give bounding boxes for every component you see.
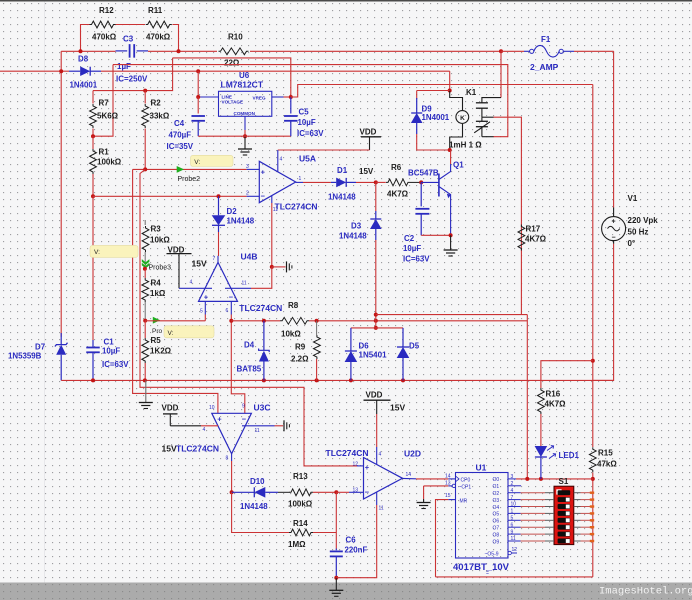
svg-text:2.2Ω: 2.2Ω bbox=[291, 355, 309, 364]
svg-text:VDD: VDD bbox=[168, 245, 185, 254]
fuse F1 2_AMP bbox=[501, 50, 524, 52]
bottom gray scrollbar band bbox=[0, 583, 692, 600]
resistor R14 1M bbox=[289, 529, 313, 536]
node R16 branch bbox=[591, 359, 595, 363]
svg-text:470µF: 470µF bbox=[169, 131, 192, 140]
svg-text:5K6Ω: 5K6Ω bbox=[97, 112, 119, 121]
diode D9 1N4001 bbox=[417, 90, 450, 92]
svg-text:C2: C2 bbox=[404, 234, 415, 243]
svg-text:4K7Ω: 4K7Ω bbox=[545, 400, 567, 409]
svg-text:LED1: LED1 bbox=[559, 451, 580, 460]
svg-text:+: + bbox=[204, 292, 209, 301]
pin U4B - input stub bbox=[230, 301, 232, 314]
wire R13 node to U2D- bbox=[336, 491, 349, 493]
node R11 drop bbox=[177, 49, 181, 53]
svg-text:TLC274CN: TLC274CN bbox=[239, 303, 282, 313]
svg-text:15V: 15V bbox=[390, 403, 405, 413]
node x61 on D8 line bbox=[59, 69, 63, 73]
svg-text:1N4148: 1N4148 bbox=[240, 502, 268, 511]
node LINE/C4 bbox=[196, 95, 200, 99]
wire MR bottom run bbox=[436, 576, 593, 578]
node LED bbox=[539, 477, 543, 481]
svg-text:9: 9 bbox=[242, 404, 245, 410]
diode D6 1N5401 bbox=[350, 328, 352, 351]
svg-text:V:: V: bbox=[168, 330, 174, 337]
svg-text:−: − bbox=[229, 292, 234, 301]
wire U4B feedback to R14 bbox=[232, 492, 290, 532]
relay NC contact bbox=[481, 117, 483, 121]
wire fuse to V1 bbox=[613, 51, 615, 207]
svg-text:D8: D8 bbox=[78, 55, 89, 64]
node U6 LINE branch bbox=[196, 69, 200, 73]
wire pin11 node to U4B side bbox=[251, 267, 272, 288]
wire C4 riser bbox=[197, 97, 199, 114]
resistor R1 100k bbox=[92, 136, 94, 149]
node R7 bottom / R1 top bbox=[91, 134, 95, 138]
svg-text:R13: R13 bbox=[293, 472, 308, 481]
svg-text:IC=250V: IC=250V bbox=[116, 74, 148, 83]
wire U3C out to D10 node bbox=[231, 461, 233, 492]
svg-text:VDD: VDD bbox=[162, 404, 179, 413]
svg-text:V:: V: bbox=[194, 159, 200, 166]
svg-text:+: + bbox=[612, 219, 616, 226]
svg-text:14: 14 bbox=[445, 474, 451, 480]
svg-text:2: 2 bbox=[511, 481, 514, 487]
svg-text:1: 1 bbox=[511, 509, 514, 515]
node D4 top bbox=[262, 319, 266, 323]
relay contact common to R17 bbox=[482, 116, 494, 118]
resistor R4 1k bbox=[144, 269, 146, 278]
wire main ground rail bbox=[61, 379, 613, 381]
svg-text:V1: V1 bbox=[628, 194, 638, 203]
transistor Q1 BC547B bbox=[438, 174, 440, 197]
svg-text:D10: D10 bbox=[250, 477, 265, 486]
svg-text:R15: R15 bbox=[598, 449, 613, 458]
svg-text:K1: K1 bbox=[466, 88, 477, 97]
svg-text:1N5359B: 1N5359B bbox=[8, 352, 42, 361]
svg-text:=: = bbox=[486, 571, 489, 577]
ground ~CP1 bbox=[417, 502, 431, 504]
ground rail symbol bbox=[145, 380, 147, 402]
node U3C out / D10 / R14 bbox=[230, 490, 234, 494]
wire U5A pin4 to VDD bbox=[278, 149, 370, 151]
resistor R6 4K7 bbox=[376, 181, 386, 183]
op-amp U5A TLC274CN bbox=[259, 161, 295, 202]
diode D4 BAT85 bbox=[263, 321, 265, 350]
svg-text:15V: 15V bbox=[192, 258, 207, 268]
pin U6 COMMON bbox=[244, 116, 246, 130]
svg-text:C6: C6 bbox=[346, 536, 357, 545]
wire probe node to U3C+ bbox=[133, 269, 218, 414]
svg-text:R2: R2 bbox=[151, 99, 162, 108]
pin U4B + input stub bbox=[204, 301, 206, 314]
svg-text:C3: C3 bbox=[123, 35, 134, 44]
svg-text:10: 10 bbox=[511, 502, 517, 508]
svg-text:8: 8 bbox=[226, 456, 229, 462]
svg-text:470kΩ: 470kΩ bbox=[92, 33, 117, 42]
svg-text:11: 11 bbox=[242, 281, 247, 287]
svg-text:R8: R8 bbox=[288, 301, 299, 310]
node R13/R14/U2D- bbox=[334, 490, 338, 494]
svg-text:R9: R9 bbox=[295, 343, 306, 352]
wire right vertical R15 net bbox=[592, 85, 594, 448]
svg-text:Probe2: Probe2 bbox=[178, 176, 201, 183]
pin U2D + 12 bbox=[357, 465, 364, 467]
svg-text:10µF: 10µF bbox=[102, 347, 120, 356]
switch S1 pole 8 bbox=[558, 539, 571, 544]
svg-text:TLC274CN: TLC274CN bbox=[176, 444, 219, 454]
wire x113 drop to R7/R1 node bbox=[93, 65, 113, 137]
diode D1 1N4148 bbox=[331, 181, 336, 183]
pin U5A inverting bbox=[247, 195, 260, 197]
node D4 bbox=[262, 378, 266, 382]
svg-text:VREG: VREG bbox=[253, 95, 266, 100]
svg-text:D5: D5 bbox=[409, 342, 420, 351]
switch S1 pole 1 bbox=[558, 490, 571, 495]
probe Probe2 bbox=[191, 155, 234, 166]
svg-text:15V: 15V bbox=[162, 444, 177, 454]
wire R7-R2 top bus bbox=[93, 58, 173, 91]
ground sideways U5A bbox=[286, 261, 288, 272]
svg-text:IC=63V: IC=63V bbox=[403, 255, 430, 264]
svg-text:12: 12 bbox=[512, 547, 518, 553]
svg-text:4: 4 bbox=[280, 157, 283, 163]
svg-text:~O5-9: ~O5-9 bbox=[485, 552, 499, 558]
svg-text:MR: MR bbox=[460, 498, 468, 504]
svg-text:+: + bbox=[261, 167, 266, 176]
wire U4B- feedback line L2 bbox=[231, 320, 280, 322]
svg-text:~CP1: ~CP1 bbox=[459, 485, 472, 491]
svg-text:15V: 15V bbox=[359, 167, 374, 176]
node L2 drop bbox=[525, 477, 529, 481]
diode D10 1N4148 bbox=[232, 491, 255, 493]
resistor R16 4K7 bbox=[538, 388, 545, 414]
svg-text:K: K bbox=[460, 115, 465, 122]
pin U5A 11 bbox=[271, 196, 273, 204]
wire top bus VDD rail y51 bbox=[61, 50, 115, 52]
svg-text:U5A: U5A bbox=[299, 154, 316, 164]
pin U5A noninverting bbox=[247, 168, 260, 170]
svg-text:1: 1 bbox=[299, 176, 302, 182]
resistor R13 100k bbox=[278, 491, 290, 493]
svg-text:U4B: U4B bbox=[241, 252, 258, 262]
node R1 bottom bbox=[91, 194, 95, 198]
pin U5A 4 bbox=[277, 150, 279, 172]
svg-text:47kΩ: 47kΩ bbox=[597, 460, 617, 469]
switch S1 pole 3 bbox=[558, 504, 571, 509]
svg-text:5: 5 bbox=[200, 309, 203, 315]
capacitor C2 10uF bbox=[420, 182, 422, 206]
svg-text:S1: S1 bbox=[559, 477, 569, 486]
svg-text:4K7Ω: 4K7Ω bbox=[525, 235, 547, 244]
svg-text:10µF: 10µF bbox=[298, 118, 316, 127]
wire top loop R12-R11 bbox=[81, 25, 92, 52]
svg-text:TLC274CN: TLC274CN bbox=[326, 448, 369, 458]
svg-text:D7: D7 bbox=[35, 343, 46, 352]
svg-text:15: 15 bbox=[445, 493, 451, 499]
svg-text:1N4001: 1N4001 bbox=[70, 81, 98, 90]
svg-text:1N4148: 1N4148 bbox=[339, 231, 367, 240]
wire D8 to relay coil bbox=[101, 70, 450, 72]
pin U6 VREG bbox=[272, 96, 284, 98]
node R2 top bbox=[143, 89, 147, 93]
svg-text:O5: O5 bbox=[493, 512, 500, 518]
pin U4B right power bbox=[225, 287, 251, 289]
svg-text:O0: O0 bbox=[493, 477, 500, 483]
svg-text:Pro: Pro bbox=[152, 328, 163, 335]
node fuse branch bbox=[499, 49, 503, 53]
node R5 bbox=[143, 378, 147, 382]
resistor R11 bbox=[146, 21, 172, 28]
op-amp U4B bbox=[199, 262, 238, 301]
svg-text:−: − bbox=[612, 235, 616, 242]
svg-text:11: 11 bbox=[255, 428, 260, 434]
ground C6 bbox=[335, 578, 337, 591]
pin U2D 11 bbox=[376, 492, 378, 505]
top window edge bbox=[0, 0, 692, 2]
op-amp U3C bbox=[212, 413, 252, 454]
wire left drop to probe node bbox=[132, 169, 134, 268]
svg-text:IC=35V: IC=35V bbox=[167, 142, 194, 151]
svg-text:1N4148: 1N4148 bbox=[227, 217, 255, 226]
wire C4-C5 ground rail bbox=[198, 135, 291, 137]
svg-text:O6: O6 bbox=[493, 519, 500, 525]
probe Probe3 bbox=[142, 259, 150, 265]
svg-text:470kΩ: 470kΩ bbox=[146, 33, 171, 42]
svg-text:1kΩ: 1kΩ bbox=[150, 289, 166, 298]
resistor R2 33k bbox=[144, 91, 146, 104]
svg-text:V:: V: bbox=[94, 249, 100, 256]
svg-text:10kΩ: 10kΩ bbox=[150, 236, 170, 245]
svg-text:ImagesHotel.org: ImagesHotel.org bbox=[599, 586, 692, 598]
svg-text:R17: R17 bbox=[526, 225, 541, 234]
node R3/R4 bbox=[143, 267, 147, 271]
svg-text:C5: C5 bbox=[299, 108, 310, 117]
svg-text:22Ω: 22Ω bbox=[224, 59, 240, 68]
svg-text:5: 5 bbox=[511, 516, 514, 522]
switch S1 pole 6 bbox=[558, 525, 571, 530]
wire D8 line bbox=[0, 70, 69, 72]
svg-text:11: 11 bbox=[379, 506, 384, 512]
svg-text:Probe3: Probe3 bbox=[149, 265, 172, 272]
svg-text:D1: D1 bbox=[337, 166, 348, 175]
node D1/R6/D3 bbox=[374, 180, 378, 184]
wire ~CP1 to ground bbox=[424, 485, 449, 487]
svg-text:−: − bbox=[365, 488, 370, 497]
wire D3 to diode bracket bbox=[375, 240, 377, 315]
wire L2 right drop to O0 line bbox=[526, 315, 528, 480]
svg-text:1µF: 1µF bbox=[117, 62, 131, 71]
zener D7 1N5359B bbox=[60, 333, 62, 344]
wire R16 branch bbox=[541, 361, 593, 388]
wire D6 D5 bracket bbox=[351, 327, 403, 329]
node O0 line bbox=[591, 477, 595, 481]
wire L1 relay common line bbox=[376, 314, 528, 316]
resistor R3 10k bbox=[144, 220, 146, 225]
ground COMMON bbox=[244, 136, 246, 149]
wire R1 node to U5A inverting input bbox=[93, 195, 247, 197]
resistor R15 47k bbox=[589, 447, 596, 472]
op-amp U2D bbox=[364, 458, 403, 500]
switch S1 pole 4 bbox=[558, 511, 571, 516]
svg-text:+: + bbox=[217, 414, 222, 423]
relay NO contact bbox=[482, 98, 501, 103]
node R9 bbox=[315, 378, 319, 382]
svg-text:VDD: VDD bbox=[366, 391, 383, 400]
svg-text:D6: D6 bbox=[359, 342, 370, 351]
svg-text:0°: 0° bbox=[628, 239, 636, 248]
node VREG bbox=[289, 95, 293, 99]
wire MR down bbox=[436, 500, 449, 577]
svg-text:U2D: U2D bbox=[404, 449, 421, 459]
switch S1 pole 7 bbox=[558, 532, 571, 537]
wire VREG feed bbox=[173, 58, 291, 97]
svg-text:10kΩ: 10kΩ bbox=[281, 330, 301, 339]
svg-text:CP0: CP0 bbox=[461, 478, 471, 484]
pin U3C output bbox=[231, 454, 233, 461]
wire left vertical from top bus bbox=[60, 51, 62, 337]
source V1 220Vpk bbox=[613, 208, 615, 217]
wire U5A pin11 to ground bbox=[271, 203, 273, 267]
svg-text:O2: O2 bbox=[493, 491, 500, 497]
svg-text:O9: O9 bbox=[493, 539, 500, 545]
svg-text:1mH 1 Ω: 1mH 1 Ω bbox=[449, 140, 482, 149]
svg-text:O3: O3 bbox=[493, 498, 500, 504]
svg-text:100kΩ: 100kΩ bbox=[288, 500, 313, 509]
svg-text:R11: R11 bbox=[148, 6, 163, 15]
svg-text:12: 12 bbox=[353, 462, 359, 468]
wire R14 node down to C6 bbox=[335, 492, 337, 548]
relay K1 coil bbox=[448, 89, 452, 93]
svg-text:11: 11 bbox=[511, 536, 516, 542]
wire D2 to U4B output bbox=[218, 232, 220, 256]
svg-text:O7: O7 bbox=[493, 526, 500, 532]
svg-text:2: 2 bbox=[246, 191, 249, 197]
svg-text:4: 4 bbox=[190, 280, 193, 286]
svg-text:R5: R5 bbox=[151, 336, 162, 345]
IC U1 4017BT_10V bbox=[456, 473, 509, 559]
capacitor C1 10uF bbox=[92, 340, 94, 348]
wire U2D out to U1 CP0 bbox=[416, 478, 448, 480]
pin U6 LINE bbox=[198, 96, 218, 98]
pin U3C right power to ground bbox=[242, 425, 275, 427]
pin U1 ~CP1 bbox=[448, 485, 452, 487]
pin U2D - 13 bbox=[357, 491, 364, 493]
node emitter/C2 bbox=[449, 233, 453, 237]
resistor R8 10k bbox=[280, 317, 309, 324]
svg-text:14: 14 bbox=[406, 472, 412, 478]
svg-text:2_AMP: 2_AMP bbox=[530, 62, 559, 72]
node L1/L2 connector bbox=[374, 319, 378, 323]
diode D8 1N4001 bbox=[69, 70, 80, 72]
wire divider node to U4B+ segment bbox=[145, 320, 205, 322]
svg-text:100kΩ: 100kΩ bbox=[97, 158, 122, 167]
svg-text:1N5401: 1N5401 bbox=[359, 351, 388, 360]
wire emitter down bbox=[450, 203, 452, 235]
svg-text:4: 4 bbox=[511, 488, 514, 494]
wire U5A output to D1 bbox=[303, 181, 331, 183]
svg-text:1N4001: 1N4001 bbox=[422, 113, 450, 122]
svg-text:VDD: VDD bbox=[360, 128, 377, 137]
svg-text:11: 11 bbox=[273, 207, 278, 213]
wire V1 bottom to ground rail bbox=[593, 244, 613, 381]
wire NC contact to divider node bbox=[113, 65, 508, 137]
svg-text:13: 13 bbox=[353, 488, 359, 494]
svg-text:D3: D3 bbox=[351, 222, 362, 231]
switch S1 pole 5 bbox=[558, 518, 571, 523]
svg-text:4: 4 bbox=[203, 427, 206, 433]
wire VDD to U2D pin4 bbox=[376, 414, 378, 447]
ground Q1 emitter bbox=[450, 235, 452, 250]
regulator U6 LM7812CT bbox=[219, 91, 272, 116]
svg-text:D4: D4 bbox=[244, 341, 255, 350]
svg-text:U3C: U3C bbox=[254, 403, 271, 413]
wire relay feed from top bus bbox=[500, 51, 502, 97]
svg-text:COMMON: COMMON bbox=[234, 111, 256, 116]
svg-text:4: 4 bbox=[379, 452, 382, 458]
pin U4B output bbox=[217, 256, 219, 262]
svg-text:TLC274CN: TLC274CN bbox=[275, 201, 318, 211]
switch S1 pole 2 bbox=[558, 497, 571, 502]
svg-text:BAT85: BAT85 bbox=[237, 365, 262, 374]
wire collector to coil node bbox=[450, 150, 452, 164]
pin U1 CP0 bbox=[448, 478, 455, 480]
wire corridor R2R3 node to U2D+ bbox=[140, 169, 357, 466]
diode D5 bbox=[402, 328, 404, 347]
capacitor C3 bbox=[116, 50, 128, 52]
svg-text:VOLTAGE: VOLTAGE bbox=[222, 100, 244, 105]
resistor R12 bbox=[90, 21, 116, 28]
node C6 bottom bbox=[334, 576, 338, 580]
sheet margin border bbox=[44, 0, 46, 584]
svg-text:O8: O8 bbox=[493, 532, 500, 538]
svg-text:Q1: Q1 bbox=[453, 161, 464, 170]
svg-text:1N4148: 1N4148 bbox=[328, 193, 356, 202]
svg-text:7: 7 bbox=[511, 495, 514, 501]
svg-text:R3: R3 bbox=[151, 225, 162, 234]
node R9 top bbox=[315, 319, 319, 323]
svg-text:+: + bbox=[365, 463, 370, 472]
resistor R5 1K2 bbox=[144, 321, 146, 338]
svg-text:C4: C4 bbox=[174, 119, 185, 128]
svg-text:3: 3 bbox=[511, 474, 514, 480]
wire C6 gnd to U2D pin11 bbox=[336, 505, 376, 578]
svg-text:220 Vpk: 220 Vpk bbox=[628, 216, 659, 225]
resistor R9 2.2 bbox=[316, 321, 318, 335]
resistor R10 22ohm bbox=[219, 48, 249, 55]
wire base bbox=[421, 181, 439, 183]
svg-text:O4: O4 bbox=[493, 505, 500, 511]
wire VREG to right vertical bbox=[291, 85, 593, 98]
node U4B- on L2 bbox=[229, 319, 233, 323]
node R2/R3 bbox=[143, 167, 147, 171]
svg-text:R12: R12 bbox=[99, 6, 114, 15]
wire U4B- down to U3C- bbox=[231, 315, 245, 414]
svg-text:R10: R10 bbox=[228, 33, 243, 42]
svg-text:4017BT_10V: 4017BT_10V bbox=[453, 562, 510, 573]
svg-text:10µF: 10µF bbox=[403, 244, 421, 253]
capacitor C6 220nF bbox=[335, 549, 337, 551]
svg-text:R6: R6 bbox=[391, 163, 402, 172]
svg-text:O1: O1 bbox=[493, 484, 500, 490]
svg-text:R4: R4 bbox=[151, 279, 162, 288]
svg-text:−: − bbox=[242, 414, 247, 423]
node C1 bbox=[91, 378, 95, 382]
node COMMON bbox=[243, 134, 247, 138]
svg-text:BC547B: BC547B bbox=[408, 169, 439, 178]
svg-text:220nF: 220nF bbox=[345, 546, 368, 555]
ground sideways U3C bbox=[283, 420, 285, 431]
